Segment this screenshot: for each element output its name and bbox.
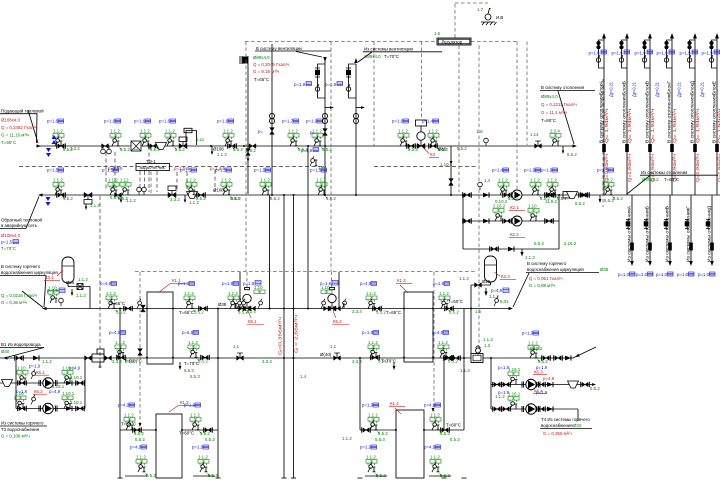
svg-text:1.10: 1.10	[15, 391, 24, 396]
wire vent outlet riser	[355, 64, 357, 195]
H1 drain tick	[217, 152, 227, 157]
instrument cluster T1 #3	[134, 119, 160, 153]
wire K1.4 left link	[360, 429, 396, 431]
riser Е sensor	[709, 55, 713, 62]
wire frame К5.1	[239, 272, 241, 309]
valve K1.1 in l	[124, 306, 133, 312]
riser Г sensor	[664, 55, 668, 62]
label sensor circ	[500, 299, 509, 304]
svg-text:5.5.2: 5.5.2	[175, 147, 185, 152]
junction node 33	[307, 145, 309, 147]
junction node 14	[293, 194, 295, 196]
pump U K2.1	[512, 190, 522, 200]
dashed arrow left zone	[139, 423, 142, 427]
meter B1	[471, 354, 483, 363]
svg-text:1.1.2: 1.1.2	[110, 129, 120, 134]
valve K6.4 in2	[502, 406, 511, 412]
valve T1 right	[535, 141, 542, 148]
svg-text:водосчетчик: водосчетчик	[140, 165, 165, 170]
svg-text:Подающий тепловой: Подающий тепловой	[1, 109, 44, 114]
wire T1 inlet leader	[28, 110, 38, 143]
svg-text:p=1,6: p=1,6	[134, 119, 146, 124]
wire T2 return header	[40, 194, 720, 196]
dn label K3.3	[482, 279, 491, 284]
svg-text:2.16.2: 2.16.2	[493, 204, 506, 209]
pipe end mark 2	[216, 477, 221, 479]
dashed drop a	[373, 42, 375, 147]
riser Б flow	[627, 109, 632, 143]
temp K1.2	[179, 431, 194, 436]
riser Е branch	[712, 40, 718, 68]
check K6.3	[547, 382, 553, 387]
riser Г branch	[667, 40, 673, 68]
svg-text:p=1,6: p=1,6	[104, 119, 116, 124]
svg-text:p=1,9: p=1,9	[612, 51, 624, 56]
svg-text:1.5: 1.5	[475, 309, 482, 314]
drain T2 c	[184, 195, 186, 200]
tick label 21	[300, 374, 307, 379]
riser Д branch	[690, 40, 696, 68]
tick label 4	[246, 148, 256, 153]
svg-text:3.3.2: 3.3.2	[112, 359, 122, 364]
heat exchanger K1.2	[156, 414, 182, 478]
svg-text:1.1.2: 1.1.2	[228, 291, 238, 296]
svg-text:1.1.2: 1.1.2	[498, 178, 508, 183]
cluster K1.3 right	[433, 281, 459, 315]
heat exchanger K1.1	[147, 292, 173, 364]
svg-text:p=1,9: p=1,9	[301, 148, 313, 153]
tick label 13	[352, 309, 362, 314]
svg-text:3.10.1: 3.10.1	[70, 400, 83, 405]
svg-text:5.5.2: 5.5.2	[200, 431, 210, 436]
pressure cluster left of K4	[392, 119, 418, 153]
tick label 26	[450, 437, 460, 442]
riser Д flow	[695, 109, 700, 143]
riser Г flow	[672, 109, 677, 143]
valve K6.3 in	[493, 382, 502, 388]
valve flange T2	[503, 192, 512, 198]
svg-text:p=: p=	[258, 129, 263, 134]
pipe end mark 1	[118, 477, 123, 479]
svg-text:3.3.2: 3.3.2	[170, 197, 180, 202]
junction node 6	[432, 308, 434, 310]
svg-text:Ø89х4,2: Ø89х4,2	[642, 177, 659, 182]
wire DHW riser B	[293, 195, 295, 478]
valve B1 meter l	[85, 356, 92, 361]
svg-text:5.5.2: 5.5.2	[376, 310, 386, 315]
vent return meter	[269, 113, 274, 123]
cluster K63 b	[508, 392, 521, 410]
svg-text:p=1,5: p=1,5	[254, 168, 266, 173]
riser В name	[645, 81, 650, 143]
valve K6.4 in	[493, 406, 502, 412]
valve K1.1 br	[201, 355, 210, 361]
bottom stub d	[429, 475, 451, 477]
svg-text:5.5.2: 5.5.2	[198, 359, 208, 364]
wire heating riser Г	[671, 38, 673, 195]
wire pump bypass left	[462, 195, 464, 249]
p K6.1 b	[69, 366, 81, 371]
pressure cluster right of K4	[422, 119, 448, 153]
cap К5.2	[330, 288, 335, 290]
control valve K4	[417, 132, 425, 149]
gauge T2 a	[137, 187, 142, 195]
riser А branch	[599, 40, 605, 68]
svg-text:1.1.2: 1.1.2	[428, 129, 438, 134]
cluster K1.3 bottom left	[362, 330, 388, 364]
svg-text:1.1.2: 1.1.2	[190, 413, 200, 418]
svg-text:1.1.2: 1.1.2	[459, 276, 469, 281]
wire tank connector	[471, 284, 491, 286]
pump K6.1	[39, 378, 57, 388]
valve B1 c	[542, 355, 551, 361]
flow arrow T1 inlet	[37, 144, 42, 147]
svg-text:К2.1: К2.1	[510, 205, 519, 210]
svg-text:Из системы горячего: Из системы горячего	[1, 421, 44, 426]
riser В flow	[650, 109, 655, 143]
riser Г dn mark	[670, 144, 674, 152]
valve tank	[475, 283, 482, 288]
svg-text:Из системы отопленияД: Из системы отопленияД	[707, 206, 712, 262]
svg-text:1.1.2: 1.1.2	[108, 178, 118, 183]
tick label 1	[70, 146, 80, 151]
svg-text:5.5.2: 5.5.2	[233, 147, 243, 152]
vent riser supply sensor	[315, 84, 319, 91]
svg-text:1.1.2: 1.1.2	[42, 359, 52, 364]
trap K63 out	[568, 381, 579, 388]
label K2.1	[509, 205, 525, 211]
dashed drop K1.4	[433, 272, 435, 411]
arrow riser А	[602, 33, 606, 39]
cluster T2 extra	[120, 178, 131, 196]
svg-text:5.5.2: 5.5.2	[450, 437, 460, 442]
svg-text:5.5.2: 5.5.2	[613, 196, 623, 201]
valve H5 small a	[141, 305, 146, 312]
gauge T1 a	[101, 146, 106, 154]
trap K6 inlet	[2, 380, 13, 387]
callout DHW return	[0, 421, 47, 439]
callout DHW circulation	[0, 264, 58, 307]
vent riser supply flow stub	[325, 107, 330, 109]
svg-text:1.1.2: 1.1.2	[260, 178, 270, 183]
label 1.6	[434, 31, 441, 36]
valve K1.3 out	[445, 306, 454, 312]
wire K64 stub	[577, 409, 579, 421]
tick label 24	[205, 437, 215, 442]
vent supply specs	[253, 55, 289, 82]
return riser Г valve	[685, 220, 690, 229]
svg-text:p=1,5: p=1,5	[47, 168, 59, 173]
svg-text:5.5.2: 5.5.2	[604, 198, 614, 203]
return riser В p	[656, 272, 673, 277]
svg-text:5.5.2: 5.5.2	[150, 147, 160, 152]
tick label 11	[575, 201, 585, 206]
sensor H5 a	[137, 299, 142, 309]
riser Е flow2	[717, 154, 720, 182]
tick label 14	[475, 309, 482, 314]
junction node 15	[283, 308, 285, 310]
svg-text:1.1.2: 1.1.2	[438, 340, 448, 345]
svg-text:Т=70°С: Т=70°С	[384, 54, 399, 59]
valve K1.1 bl	[117, 355, 126, 361]
svg-text:p=1,9: p=1,9	[306, 119, 318, 124]
riser Г p label	[657, 50, 675, 56]
wire drain stub	[521, 249, 523, 255]
svg-text:p=1,6: p=1,6	[159, 119, 171, 124]
label К5.1	[247, 311, 264, 325]
junction node 1	[146, 308, 148, 310]
trap T1	[156, 143, 167, 150]
cluster K1.4 right	[424, 403, 450, 437]
svg-text:Q = 0,2482 Гкал/ч: Q = 0,2482 Гкал/ч	[1, 125, 37, 130]
arrow return riser В	[668, 261, 672, 266]
wire K1.4 right link	[424, 429, 464, 431]
dashed gauge drop 3	[176, 172, 178, 192]
cap К5.1	[245, 288, 250, 290]
svg-text:5.5.2: 5.5.2	[457, 146, 467, 151]
return riser Б p	[636, 272, 653, 277]
flow arrow B1 left end	[3, 356, 8, 359]
wire drain K1.3	[393, 362, 395, 369]
svg-text:5.5.2: 5.5.2	[440, 473, 450, 478]
trap T2 right	[567, 192, 578, 199]
tick K6.1 r	[70, 375, 83, 380]
label K3.3	[494, 272, 516, 280]
riser Е dn mark	[715, 144, 719, 152]
cluster T2 right b	[597, 168, 623, 202]
junction node 9	[155, 429, 157, 431]
svg-text:Q= 1,94м³/ч: Q= 1,94м³/ч	[650, 109, 655, 143]
svg-text:1.8: 1.8	[477, 129, 484, 134]
return riser А valve	[626, 220, 631, 229]
svg-text:5.5.2: 5.5.2	[63, 196, 73, 201]
wire drain branch	[463, 248, 559, 250]
svg-text:5.5.2: 5.5.2	[508, 196, 518, 201]
vent riser supply valve	[315, 68, 320, 77]
valve K1.3 in	[373, 306, 382, 312]
svg-text:G = 8,18 м³/ч: G = 8,18 м³/ч	[253, 69, 279, 74]
wire pump K2.2 branch	[463, 220, 559, 222]
riser Е p label	[702, 50, 720, 56]
trap T2	[187, 192, 198, 199]
tick K63 low	[460, 368, 470, 373]
cluster bottom c	[360, 445, 386, 479]
valve K1.3 br	[445, 355, 454, 361]
svg-text:p=1,0: p=1,0	[618, 272, 630, 277]
svg-text:5.5.2: 5.5.2	[196, 196, 206, 201]
svg-text:1.1.2: 1.1.2	[136, 455, 146, 460]
outdoor sensor IV	[481, 8, 503, 25]
svg-text:1.1.2: 1.1.2	[53, 129, 63, 134]
check valve K2.2	[483, 218, 489, 223]
svg-text:Т=65°С: Т=65°С	[179, 310, 194, 315]
wire B1 cold water header	[0, 357, 573, 359]
valve K2.2 in	[463, 218, 472, 224]
tank K3.1 drain arrow	[71, 293, 74, 297]
check K6.1	[66, 380, 72, 385]
svg-text:p=1,9: p=1,9	[29, 364, 41, 369]
riser Б p label	[612, 50, 630, 56]
label K1.4	[389, 401, 405, 414]
riser Е flow	[717, 109, 720, 143]
svg-text:5.5.2: 5.5.2	[408, 147, 418, 152]
tick label 18	[352, 359, 362, 364]
tick label 3	[196, 137, 205, 142]
return riser Б name	[645, 206, 650, 262]
wire K6 branch bottom	[16, 408, 85, 410]
svg-text:К5.1: К5.1	[248, 319, 257, 324]
temp K1.1 in	[110, 301, 125, 306]
dashed drop right	[516, 42, 518, 190]
dn label K3.1	[66, 280, 75, 285]
svg-text:1.1.2: 1.1.2	[316, 178, 326, 183]
svg-text:1.4: 1.4	[300, 374, 307, 379]
svg-text:Q= 1,94м³/ч: Q= 1,94м³/ч	[627, 109, 632, 143]
callout from vent system	[358, 47, 442, 63]
riser А flow	[604, 109, 609, 143]
svg-text:p=1,9: p=1,9	[589, 51, 601, 56]
junction node 19	[119, 357, 121, 359]
gauge T1 b	[107, 146, 112, 154]
svg-text:p=4,9: p=4,9	[424, 403, 436, 408]
svg-text:p=1,0: p=1,0	[677, 272, 689, 277]
svg-text:К3.3: К3.3	[501, 274, 510, 279]
svg-text:Ø108: Ø108	[213, 147, 224, 152]
riser В branch	[645, 40, 651, 68]
dashed K5.1 drop	[246, 272, 248, 289]
dashed drop extra	[526, 42, 528, 146]
vent riser supply flow arrow	[330, 106, 334, 109]
svg-text:Др=0,21: Др=0,21	[700, 81, 705, 97]
cluster bottom a	[130, 445, 156, 479]
svg-text:Q=1,94м³/ч: Q=1,94м³/ч	[627, 154, 632, 182]
meter box B1 left	[92, 354, 104, 362]
junction node 21	[307, 308, 309, 310]
valve K1.3 bl	[371, 355, 380, 361]
cluster vent return riser	[254, 168, 280, 202]
svg-text:1.1.2: 1.1.2	[342, 436, 352, 441]
temp K1.3 bot	[381, 359, 396, 364]
sensor K6.1 l	[31, 369, 36, 379]
vent riser supply p label	[294, 82, 312, 88]
cluster K1.3 bottom right	[432, 330, 458, 364]
svg-text:Т=95°С: Т=95°С	[1, 140, 16, 145]
svg-text:p=5,9: p=5,9	[182, 330, 194, 335]
cluster at valve T1 right	[550, 129, 561, 147]
riser В dp	[655, 81, 660, 97]
p label K3.1	[47, 288, 65, 293]
wire pump bypass right	[558, 195, 560, 249]
temp K1.3 in	[386, 310, 401, 315]
cluster K2.2 a	[493, 204, 506, 222]
p K6.1 a	[29, 364, 41, 369]
svg-text:Т3 водоснабжения: Т3 водоснабжения	[1, 427, 40, 432]
wire drain K1.1	[179, 362, 181, 369]
riser В valves	[642, 41, 646, 49]
svg-text:5.5.2: 5.5.2	[378, 431, 388, 436]
instrument cluster T2 #2	[102, 168, 128, 202]
wire heat meter link	[148, 146, 150, 163]
actuator valve T1	[179, 137, 187, 149]
svg-text:Из системы отопленияА: Из системы отопленияА	[627, 206, 632, 262]
svg-text:5.5.2: 5.5.2	[208, 473, 218, 478]
wire makeup connector	[450, 146, 452, 195]
arrow riser Е	[715, 33, 719, 39]
svg-text:Из системы отопления: Из системы отопления	[641, 170, 688, 175]
svg-text:Т=80°С: Т=80°С	[541, 118, 556, 123]
svg-text:Q= 1,94м³/ч: Q= 1,94м³/ч	[695, 109, 700, 143]
drain K1.3	[393, 366, 396, 370]
drain T2 a arrow	[85, 207, 88, 211]
vent riser outlet p label	[325, 82, 343, 88]
cluster H5 right	[222, 281, 248, 315]
tick label 19	[483, 337, 493, 342]
wire K6 frame right	[84, 358, 86, 409]
svg-text:Т=(60)°С: Т=(60)°С	[124, 359, 142, 364]
p label К5.2	[320, 281, 338, 287]
wire circ callout leader	[513, 273, 529, 307]
svg-text:G=0,366м³/ч: G=0,366м³/ч	[278, 317, 283, 355]
label tank drain	[489, 294, 499, 299]
svg-text:И.В: И.В	[496, 15, 503, 20]
gauge T2 b	[142, 187, 147, 195]
label drain	[525, 255, 535, 260]
svg-text:p=1,6: p=1,6	[47, 119, 59, 124]
svg-text:1.7: 1.7	[477, 7, 484, 12]
svg-text:К3.1: К3.1	[45, 275, 54, 280]
valve K1.4 l	[362, 427, 371, 433]
return riser Г name	[686, 205, 691, 262]
svg-text:Т=65°С: Т=65°С	[386, 310, 401, 315]
instrument cluster T1 #4	[159, 119, 185, 153]
tick label 23	[135, 437, 145, 442]
return riser Г p	[677, 272, 694, 277]
dashed gauge rail right	[374, 166, 478, 168]
svg-text:К4: К4	[430, 152, 436, 157]
svg-text:1.11: 1.11	[196, 137, 205, 142]
dashed arrow K1.4	[432, 408, 435, 412]
svg-text:p=1,9: p=1,9	[536, 365, 548, 370]
vent riser outlet flow stub	[356, 107, 361, 109]
riser А dn mark	[602, 144, 606, 152]
wire T4 outlet leader	[22, 291, 43, 308]
label K6.1	[35, 370, 49, 375]
instrument cluster T2 #4	[215, 168, 241, 202]
riser Д name	[690, 81, 695, 143]
arrow return riser А	[630, 261, 634, 266]
svg-text:В систему отопленияБлокЕ: В систему отопленияБлокЕ	[712, 81, 717, 143]
svg-text:5.5.2: 5.5.2	[246, 148, 256, 153]
svg-text:1.16.1: 1.16.1	[508, 392, 521, 397]
return riser В name	[665, 206, 670, 262]
tick gauge makeup	[484, 178, 491, 183]
svg-text:5.5.2: 5.5.2	[116, 310, 126, 315]
arrow return riser Б	[648, 261, 652, 266]
dashed gauge drop 1	[105, 152, 107, 190]
flow arrow T1 end	[573, 144, 578, 147]
label K4	[423, 148, 439, 158]
coil box B1	[97, 349, 104, 354]
cluster T2 right a	[541, 168, 567, 202]
flow arrow T2 outlet	[38, 193, 43, 196]
pipe end mark 5	[358, 477, 363, 479]
junction node 35	[324, 194, 326, 196]
dashed drop left low	[99, 196, 101, 368]
wire drain T2 right	[599, 195, 601, 202]
dn label T1	[213, 147, 224, 152]
svg-text:1.1.2: 1.1.2	[76, 293, 86, 298]
svg-text:Др=0,21: Др=0,21	[655, 81, 660, 97]
